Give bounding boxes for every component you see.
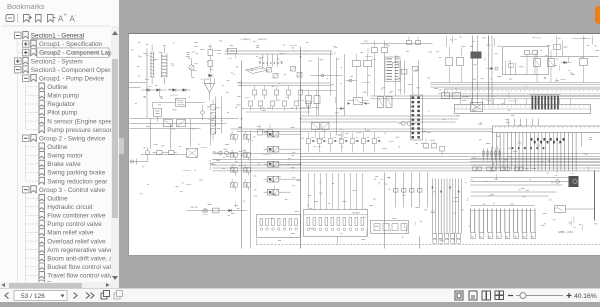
wire risers xyxy=(461,99,571,105)
relay K2 xyxy=(187,149,198,158)
control valve V4 xyxy=(264,177,291,183)
wire trunks bottom xyxy=(385,173,420,249)
wire bus xyxy=(371,96,600,99)
svg-text:Pilot pump: Pilot pump xyxy=(47,110,78,117)
wire stub left xyxy=(129,83,147,88)
relay K16 xyxy=(353,54,372,98)
label key switch xyxy=(191,207,198,209)
diode pair D2 xyxy=(169,88,191,91)
junction block JB2 xyxy=(304,210,368,237)
wire fuse F4 xyxy=(393,56,401,96)
wire xyxy=(146,89,148,119)
svg-text:Group 3 - Control valve: Group 3 - Control valve xyxy=(39,187,106,194)
component row CR2 xyxy=(249,101,311,111)
svg-text:Flow combiner valve: Flow combiner valve xyxy=(47,213,106,220)
check valve symbol xyxy=(246,67,268,74)
connector pairs xyxy=(473,167,524,170)
switch S3 xyxy=(580,51,588,83)
svg-text:-: - xyxy=(75,13,77,19)
wire xyxy=(471,178,576,186)
connector bars CN-6 xyxy=(530,95,561,110)
svg-text:E35B - 1 OF 1: E35B - 1 OF 1 xyxy=(559,232,574,234)
resistor bank xyxy=(482,149,500,161)
junction block JB3 xyxy=(371,221,409,234)
relay K10 xyxy=(361,41,433,96)
bookmarks panel xyxy=(0,0,119,288)
relay group K20 xyxy=(424,139,445,156)
wire xyxy=(141,154,187,156)
relay K12 xyxy=(548,51,555,83)
connector comb CN-5 xyxy=(432,179,462,244)
wire xyxy=(187,210,247,212)
wire trunk xyxy=(241,61,242,249)
wire stubs xyxy=(338,233,455,245)
svg-text:W1-A0JT: W1-A0JT xyxy=(353,211,361,214)
vertical scrollbar xyxy=(111,26,119,288)
battery BT1 xyxy=(154,109,162,122)
wire xyxy=(213,163,301,169)
svg-text:B5: B5 xyxy=(515,236,517,238)
fusible link FL1 xyxy=(150,52,155,78)
solenoid valve SV4 xyxy=(231,179,238,191)
svg-text:Swing reduction gear: Swing reduction gear xyxy=(47,178,108,185)
solenoid pair SL3 xyxy=(258,125,273,136)
pump sensor B2 xyxy=(399,122,417,126)
drawing number label xyxy=(559,232,574,234)
svg-text:Main relief valve: Main relief valve xyxy=(47,230,94,237)
solenoid valve SV1 xyxy=(231,131,238,143)
junction wire xyxy=(311,74,343,77)
svg-text:85: 85 xyxy=(132,50,134,52)
svg-text:Brake valve: Brake valve xyxy=(47,161,81,168)
svg-text:Group1 - Pump Device: Group1 - Pump Device xyxy=(39,75,104,82)
wire bus xyxy=(301,116,459,122)
svg-text:Swing motor: Swing motor xyxy=(47,153,83,160)
inline connectors xyxy=(394,189,423,193)
wire xyxy=(152,45,164,85)
connector comb CN-4 xyxy=(471,209,536,239)
svg-text:B6: B6 xyxy=(523,236,525,238)
solenoid valve SW2 xyxy=(244,149,251,161)
diode row D5 xyxy=(260,63,283,64)
relay unit K6 xyxy=(329,133,337,153)
relay unit K7 xyxy=(340,133,348,153)
svg-text:N sensor (Engine speed: N sensor (Engine speed xyxy=(47,118,116,125)
svg-text:( SWITCH ): ( SWITCH ) xyxy=(258,39,268,41)
relay contacts K19 xyxy=(291,67,303,78)
svg-text:Swing parking brake: Swing parking brake xyxy=(47,170,105,177)
diode D4 xyxy=(229,209,232,212)
label loader switch xyxy=(241,38,268,41)
junction block JB1 xyxy=(257,215,301,238)
svg-text:Section1 - General: Section1 - General xyxy=(31,33,84,40)
terminal strip TS0 xyxy=(445,89,600,96)
svg-text:Section2 - System: Section2 - System xyxy=(31,58,83,65)
fuse F1 xyxy=(228,48,237,53)
wire cluster xyxy=(402,61,419,95)
wire risers JB2 xyxy=(308,173,362,209)
lamp L1 xyxy=(130,159,149,165)
svg-text:53 / 126: 53 / 126 xyxy=(21,293,45,300)
wire rail xyxy=(471,206,535,211)
control valve V2 xyxy=(264,147,291,153)
module frame U1 xyxy=(503,47,549,75)
component row CR1 xyxy=(253,86,303,100)
svg-text:Travel flow control valve: Travel flow control valve xyxy=(47,273,116,280)
wire drops xyxy=(396,173,428,208)
terminal strip TS2 xyxy=(493,126,600,133)
relay contacts K18 xyxy=(267,68,279,79)
module internals xyxy=(525,51,538,75)
relay unit K4 xyxy=(307,133,315,153)
svg-text:Overload relief valve: Overload relief valve xyxy=(47,238,106,245)
diode D7 xyxy=(487,67,499,70)
solenoid SL2 xyxy=(306,91,321,116)
fusible link FL2 xyxy=(162,54,168,78)
svg-text:KEY SW: KEY SW xyxy=(191,207,198,209)
terminal list TL1 xyxy=(385,57,400,82)
svg-text:Group2 - Component Layou: Group2 - Component Layou xyxy=(40,50,119,57)
horizontal scrollbar xyxy=(0,282,111,288)
svg-text:40.16%: 40.16% xyxy=(574,293,597,300)
wire xyxy=(566,208,595,210)
solenoid valve SW3 xyxy=(244,164,251,176)
wire trunk main xyxy=(300,47,301,249)
wire trunk right xyxy=(473,36,478,105)
relay unit K8 xyxy=(351,133,359,153)
solenoid valve SV2 xyxy=(231,149,238,161)
fuse F5 xyxy=(554,36,563,57)
wire long xyxy=(231,129,493,132)
wire xyxy=(246,109,311,113)
svg-text:B0: B0 xyxy=(532,236,534,238)
wire bus top xyxy=(225,51,333,54)
wire xyxy=(146,49,148,89)
svg-text:Boom anti-drift valve, a: Boom anti-drift valve, a xyxy=(47,255,113,262)
svg-text:Pump control valve: Pump control valve xyxy=(47,221,102,228)
svg-text:8A: 8A xyxy=(171,63,174,66)
splitter collapse handle xyxy=(119,138,124,154)
resistor chain R1 xyxy=(208,45,213,73)
bottom toolbar xyxy=(0,288,600,302)
module wires xyxy=(506,61,516,75)
solenoid valve SW1 xyxy=(244,131,251,143)
frame border xyxy=(257,239,600,245)
svg-text:Arm regenerative valve: Arm regenerative valve xyxy=(47,247,113,254)
wire tick texture xyxy=(135,37,599,242)
svg-text:Group1 - Specification: Group1 - Specification xyxy=(39,41,103,48)
diode pair D1 xyxy=(142,88,167,91)
PDF page with circuit schematic xyxy=(128,33,600,256)
wire risers TS2 xyxy=(509,119,539,127)
resistor R4 xyxy=(213,208,220,213)
pressure switch PS1 xyxy=(145,148,149,161)
wire trunk pair xyxy=(489,36,493,105)
solenoid SL1 xyxy=(378,97,393,108)
orange corner tab xyxy=(595,6,600,24)
wire heavy xyxy=(594,171,596,221)
wire xyxy=(489,36,495,47)
wire xyxy=(301,91,337,108)
sensor B1 xyxy=(215,151,234,155)
wire bus upper xyxy=(431,83,600,88)
connector CN-3 xyxy=(569,176,579,187)
relay pair K17 xyxy=(164,120,186,127)
solenoid valve SW4 xyxy=(244,179,251,191)
connector comb CN-2 xyxy=(493,133,582,171)
wire rail xyxy=(521,56,599,58)
svg-text:Hydraulic circuit: Hydraulic circuit xyxy=(47,204,92,211)
gauge M1 xyxy=(189,59,194,77)
wire bus lower xyxy=(471,159,600,166)
fuse F2 xyxy=(407,37,421,45)
wire stub texture xyxy=(160,38,589,236)
relay K15 xyxy=(555,206,566,213)
wire xyxy=(153,103,205,109)
svg-text:Bookmarks: Bookmarks xyxy=(7,2,45,11)
label fusible link xyxy=(132,50,174,66)
relay unit K10 xyxy=(373,133,381,153)
junction xyxy=(346,79,357,82)
svg-text:( LOADER ): ( LOADER ) xyxy=(241,38,251,41)
wire xyxy=(291,134,301,179)
wire risers xyxy=(263,55,278,67)
svg-text:Outline: Outline xyxy=(47,195,68,202)
resistor R2 xyxy=(153,151,166,155)
relay unit K9 xyxy=(362,133,370,153)
svg-text:B1: B1 xyxy=(480,236,482,238)
svg-text:B3: B3 xyxy=(497,236,499,238)
wire bus mid xyxy=(213,154,600,171)
diode D8 xyxy=(337,107,344,110)
diode D6 xyxy=(561,57,572,65)
svg-text:Outline: Outline xyxy=(47,144,68,151)
wire drops xyxy=(151,119,211,150)
svg-text:+: + xyxy=(64,13,67,19)
wire xyxy=(319,51,345,135)
control valve V1 xyxy=(264,132,291,138)
svg-text:Group 2 - Swing device: Group 2 - Swing device xyxy=(39,135,106,142)
wire xyxy=(216,97,222,134)
fuse block F3 xyxy=(442,93,461,99)
wire xyxy=(471,192,557,196)
svg-text:B2: B2 xyxy=(489,236,491,238)
valve block V6 xyxy=(312,123,330,138)
svg-text:Pump pressure sensor: Pump pressure sensor xyxy=(47,127,112,134)
svg-text:Bucket flow control valv: Bucket flow control valv xyxy=(47,264,115,271)
relay K11 xyxy=(534,51,541,83)
svg-text:Section3 - Component Operat: Section3 - Component Operat xyxy=(31,67,116,74)
wire xyxy=(250,131,252,249)
relay cluster K13 xyxy=(446,47,482,83)
svg-text:Main pump: Main pump xyxy=(47,93,79,100)
wire rail xyxy=(238,83,331,86)
svg-text:Regulator: Regulator xyxy=(47,101,76,108)
valve column VC1 xyxy=(211,100,216,141)
sensor B3 xyxy=(201,105,205,121)
connector CN-1 xyxy=(411,95,423,140)
svg-text:Outline: Outline xyxy=(47,84,68,91)
control valve V5 xyxy=(264,190,291,196)
relay K1 xyxy=(176,99,186,107)
label W1-A0JT xyxy=(353,211,361,214)
plug P1 xyxy=(556,180,560,184)
transistor Q1 xyxy=(205,79,215,101)
relay K14 xyxy=(471,103,483,112)
wire from top xyxy=(447,36,593,51)
relay K3 xyxy=(348,98,369,105)
svg-text:B0: B0 xyxy=(472,236,474,238)
switch S2 xyxy=(204,208,208,212)
svg-text:B4: B4 xyxy=(506,236,508,238)
diode D3 xyxy=(209,74,213,88)
solenoid valve SV3 xyxy=(231,164,238,176)
control valve V3 xyxy=(264,162,291,168)
relay unit K5 xyxy=(318,133,326,153)
terminal strip TS1 xyxy=(455,105,591,114)
wire harness xyxy=(130,119,239,129)
resistor R3 xyxy=(166,151,177,155)
